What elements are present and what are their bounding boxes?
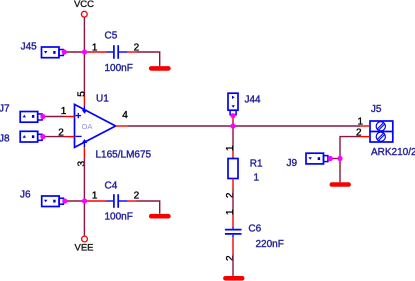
pin 5 (V+)	[83, 94, 85, 106]
svg-text:1: 1	[92, 191, 98, 202]
ground (C4)	[151, 214, 168, 219]
svg-text:J9: J9	[287, 158, 298, 169]
svg-text:3: 3	[76, 160, 87, 166]
capacitor C6	[225, 209, 284, 261]
svg-text:U1: U1	[96, 94, 109, 105]
pin dot J6	[62, 198, 67, 203]
svg-text:2: 2	[58, 127, 64, 138]
svg-text:OA: OA	[82, 122, 93, 131]
capacitor C4	[87, 181, 140, 223]
svg-text:100nF: 100nF	[105, 212, 133, 223]
svg-text:4: 4	[122, 110, 128, 121]
svg-text:C5: C5	[105, 31, 118, 42]
pin 1 (non-inverting input)	[65, 116, 75, 118]
svg-text:1: 1	[225, 145, 236, 151]
junction node VCC/J45/C5	[82, 49, 87, 54]
wire J44 to main net	[232, 116, 234, 121]
wire op-amp output net (main horizontal)	[128, 125, 360, 127]
power port VCC	[74, 0, 94, 17]
pin dot J8	[40, 134, 45, 139]
pin dot J44	[230, 113, 235, 118]
pin dot J7	[40, 114, 45, 119]
wire J9 to ground net	[330, 158, 340, 160]
ground (C6)	[225, 276, 242, 281]
svg-text:ARK210/2: ARK210/2	[371, 147, 415, 158]
svg-text:2: 2	[134, 191, 140, 202]
junction node output/J44/R1	[230, 123, 235, 128]
power port VEE	[74, 236, 93, 253]
svg-text:VEE: VEE	[74, 243, 93, 254]
svg-text:220nF: 220nF	[256, 239, 284, 250]
connector J9	[287, 153, 328, 169]
pin 3 (V-)	[83, 142, 85, 147]
wire node to VEE port	[83, 201, 85, 236]
op-amp U1 L165/LM675	[58, 91, 151, 167]
svg-text:C4: C4	[105, 181, 118, 192]
svg-text:C6: C6	[248, 224, 261, 235]
junction node J9/ground net	[337, 156, 342, 161]
pin 2 (inverting input)	[65, 136, 75, 138]
svg-text:2: 2	[225, 255, 236, 261]
svg-text:5: 5	[77, 91, 88, 97]
svg-text:2: 2	[356, 128, 362, 139]
wire J7 to op-amp pin 1	[43, 116, 65, 118]
pin 2	[360, 136, 370, 138]
pin dot J9	[328, 156, 333, 161]
pin 1	[360, 125, 370, 127]
ground (C5)	[151, 66, 168, 71]
wire op-amp pin3 to VEE node	[83, 158, 85, 201]
resistor R1	[225, 145, 263, 198]
svg-text:J45: J45	[21, 42, 38, 53]
svg-text:R1: R1	[250, 158, 263, 169]
junction node VEE/J6/C4	[82, 198, 87, 203]
svg-text:1: 1	[254, 172, 260, 183]
wire node down to R1	[232, 126, 234, 148]
wire J5 pin2 net to ground vertical	[340, 137, 360, 183]
wire J45 to node	[64, 51, 84, 53]
connector J6	[20, 190, 63, 207]
op-amp - input marker	[76, 135, 82, 137]
terminal block J5 ARK210/2	[356, 104, 415, 158]
connector J45	[21, 42, 64, 58]
svg-text:L165/LM675: L165/LM675	[96, 150, 152, 161]
capacitor C5	[87, 31, 140, 75]
svg-text:VCC: VCC	[74, 0, 94, 10]
svg-text:1: 1	[225, 209, 236, 215]
wire VCC vertical to J45/C5 node	[83, 17, 85, 52]
svg-text:100nF: 100nF	[105, 63, 133, 74]
wire R1 to C6	[232, 189, 234, 212]
svg-text:1: 1	[358, 117, 364, 128]
pin 4 (output)	[116, 125, 128, 127]
wire J8 to op-amp pin 2	[43, 136, 65, 138]
pin dot J45	[62, 49, 67, 54]
svg-text:J8: J8	[0, 133, 10, 144]
svg-text:1: 1	[61, 106, 67, 117]
connector J7	[0, 104, 42, 123]
svg-text:J6: J6	[20, 190, 31, 201]
wire J6 to node	[65, 200, 85, 202]
svg-text:J5: J5	[371, 104, 382, 115]
svg-text:J44: J44	[245, 95, 262, 106]
ground (J9 net)	[332, 182, 349, 187]
wire C6 pin2 to ground	[232, 254, 234, 276]
svg-text:J7: J7	[0, 104, 10, 115]
wire C5 pin2 to ground	[137, 52, 160, 66]
svg-text:2: 2	[225, 192, 236, 198]
connector J8	[0, 131, 42, 144]
wire node to op-amp pin 5	[83, 52, 85, 94]
op-amp + input marker	[76, 113, 81, 118]
connector J44	[228, 93, 261, 115]
wire C4 pin2 to ground	[137, 201, 160, 214]
